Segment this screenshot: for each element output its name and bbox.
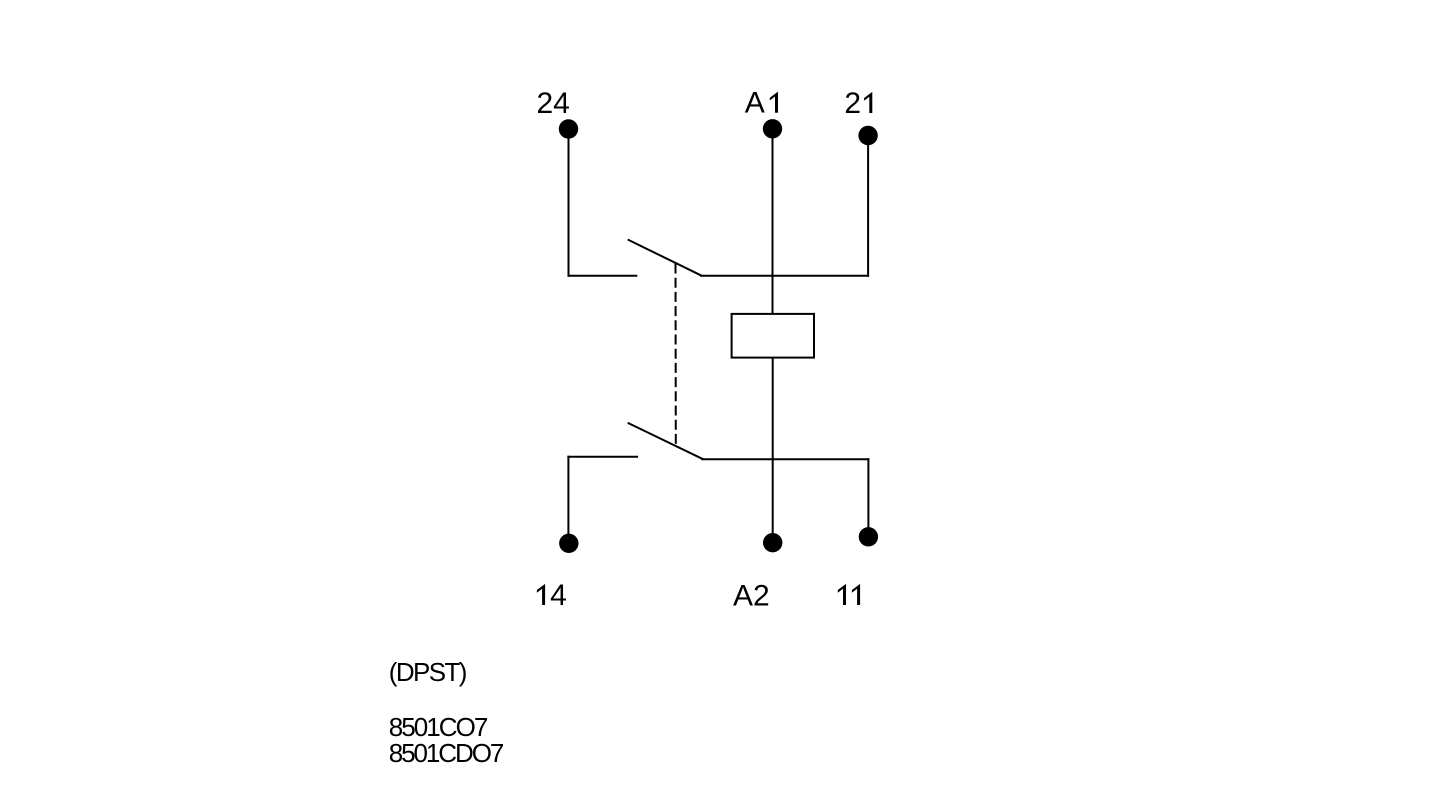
svg-text:2: 2 [844,87,861,120]
svg-text:(DPST): (DPST) [389,657,468,687]
svg-text:8501CDO7: 8501CDO7 [389,738,505,768]
svg-text:24: 24 [537,87,570,120]
svg-text:A2: A2 [733,580,770,613]
svg-text:4: 4 [550,579,567,612]
svg-text:A: A [745,87,765,120]
